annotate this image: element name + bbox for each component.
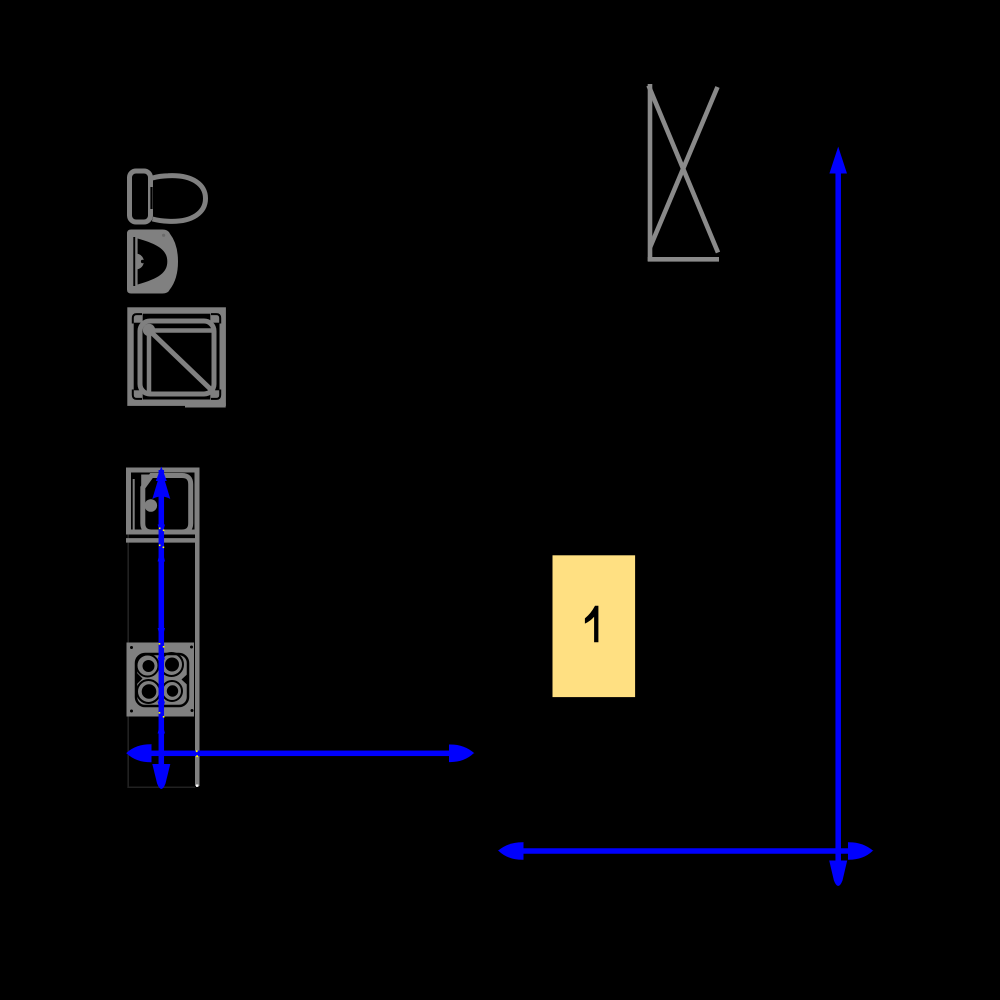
zone 1 (yellow room label box) (553, 555, 636, 697)
shower inner tray (140, 321, 214, 394)
toilet tank (130, 171, 151, 222)
shower corner bracket BL (133, 390, 142, 399)
toilet bowl (153, 176, 206, 222)
top arrowhead (829, 147, 847, 174)
window diagonal TL-BR (649, 86, 719, 253)
stove right wedge (182, 674, 188, 685)
shower outer square (131, 311, 223, 403)
sink left inner line (133, 479, 135, 534)
stove (4-burner hob) (127, 643, 195, 717)
small tick arrows at stove bottom (158, 702, 165, 716)
window sill (648, 257, 719, 262)
washbasin inner slit (133, 237, 135, 286)
shower corner fill BL (130, 390, 143, 403)
left arrowhead (126, 744, 152, 762)
snap marks (yellow) at dimension crossings (159, 528, 198, 758)
burner TL (137, 655, 159, 677)
top arrowheads (doubled) (156, 467, 167, 482)
washbasin bowl (138, 239, 168, 285)
kitchen counter bottom edge (127, 787, 195, 789)
window diagonal TR-BL (650, 87, 718, 248)
stove inner border (136, 654, 188, 706)
washbasin overflow dot (162, 234, 165, 237)
washbasin (plan symbol) (127, 230, 178, 294)
shower tray (130, 310, 226, 408)
dimension kitchen vertical line (152, 467, 170, 790)
sink divider line (126, 538, 200, 543)
window symbol (top right) (648, 84, 719, 261)
shower corner bracket TL (133, 314, 142, 323)
stove corner dots (130, 646, 133, 649)
small tick arrows at stove top (158, 628, 165, 642)
left arrowhead (498, 842, 524, 859)
dimension bottom horizontal line (498, 842, 874, 859)
shower drain lines (149, 328, 213, 333)
sink outer rect (129, 470, 198, 532)
dimension right vertical line (829, 147, 847, 886)
shower corner fill BR (210, 390, 223, 403)
small tick arrows at sink bottom (158, 525, 165, 538)
shower corner fill TR (210, 310, 223, 323)
dimension kitchen horizontal line (126, 744, 474, 762)
sink drain dot (145, 499, 158, 512)
stove body (127, 643, 195, 717)
right arrowhead (848, 842, 873, 859)
kitchen counter right edge (195, 534, 200, 786)
shower corner fill TL (130, 310, 143, 323)
stove left wedge (137, 673, 143, 685)
shower corner bracket BR (211, 390, 220, 399)
kitchen sink unit (126, 470, 200, 540)
toilet (plan symbol, tank left + bowl right) (130, 171, 206, 222)
washbasin tap dot (141, 260, 144, 263)
burner BL (137, 680, 160, 703)
kitchen counter right edge endpoint (196, 785, 198, 787)
washbasin counter outline (127, 230, 178, 294)
window left jamb (648, 84, 653, 261)
bottom arrowhead (829, 861, 847, 887)
shower threshold strip (185, 403, 226, 408)
sink corner wedge (141, 475, 153, 490)
burner TR (160, 653, 183, 676)
toilet slit between tank and bowl (150, 187, 152, 209)
shower drain (143, 324, 155, 336)
shower corner bracket TR (211, 314, 220, 323)
sink bowl (143, 476, 191, 533)
right arrowhead (449, 745, 474, 763)
burner BR (162, 681, 182, 701)
zone 1 label (585, 606, 599, 643)
kitchen counter left edge (127, 534, 129, 788)
